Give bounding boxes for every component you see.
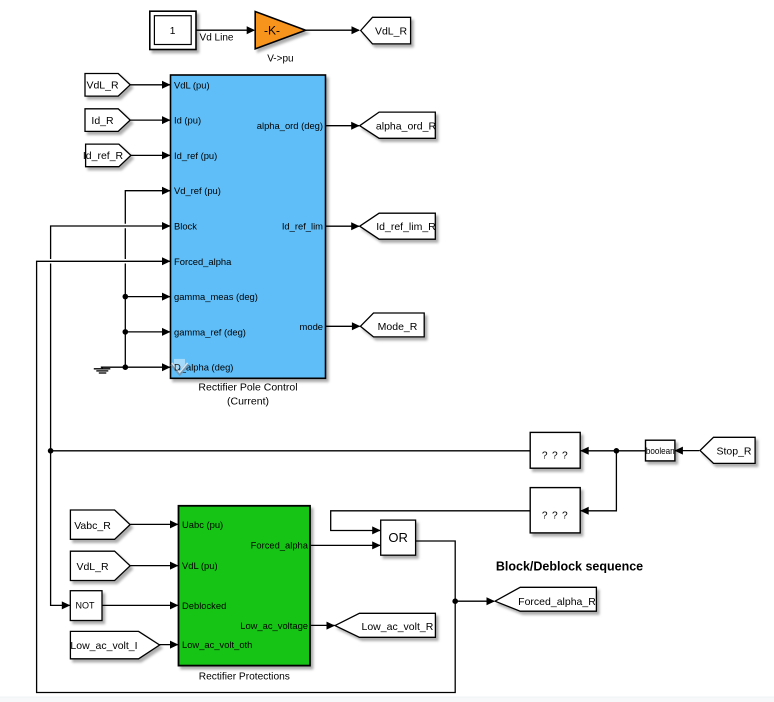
svg-text:V->pu: V->pu bbox=[267, 53, 293, 64]
wire: Stop_R net (Stop_R to boolean to ??? blocks) bbox=[581, 451, 700, 511]
data type conversion boolean bbox=[646, 440, 675, 461]
from tag VdL_R bbox=[85, 74, 130, 97]
svg-text:Id_ref (pu): Id_ref (pu) bbox=[174, 150, 217, 161]
wire: mode output to Mode_R goto bbox=[326, 325, 360, 327]
constant block "1" bbox=[150, 11, 196, 49]
arrow into VdL_R goto bbox=[352, 26, 361, 34]
svg-text:D: D bbox=[174, 362, 181, 373]
svg-text:Id_R: Id_R bbox=[91, 115, 114, 127]
arrow into Id_ref (pu) port bbox=[162, 151, 171, 159]
wire: Low_ac_volt_I from tag to Low_ac_volt_oth port bbox=[159, 644, 178, 646]
svg-text:mode: mode bbox=[300, 321, 323, 332]
wire: VdL_R from tag to VdL (pu) port of protections bbox=[130, 565, 178, 567]
junction: Block net split bbox=[48, 448, 54, 454]
from tag VdL_R lower bbox=[70, 551, 130, 580]
logical operator NOT bbox=[70, 591, 102, 621]
svg-text:NOT: NOT bbox=[76, 601, 96, 611]
arrow into VdL (pu) port protections bbox=[170, 562, 179, 570]
svg-text:Forced_alpha: Forced_alpha bbox=[174, 256, 232, 267]
svg-text:Low_ac_volt_I: Low_ac_volt_I bbox=[70, 640, 137, 652]
svg-text:? ? ?: ? ? ? bbox=[542, 510, 569, 521]
goto tag Low_ac_volt_R bbox=[335, 613, 435, 637]
from tag Id_R bbox=[85, 109, 130, 132]
svg-text:Id_ref_R: Id_ref_R bbox=[83, 150, 124, 162]
arrow into alpha_ord_R goto bbox=[351, 122, 360, 130]
svg-text:? ? ?: ? ? ? bbox=[542, 450, 569, 461]
arrow into VdL (pu) port bbox=[162, 81, 171, 89]
svg-text:Mode_R: Mode_R bbox=[378, 321, 418, 333]
svg-text:Deblocked: Deblocked bbox=[182, 600, 226, 611]
svg-text:Id_ref_lim: Id_ref_lim bbox=[282, 221, 323, 232]
junction: Stop net split bbox=[614, 448, 620, 454]
subsystem Rectifier Pole Control (Current) bbox=[171, 75, 326, 408]
arrow into Low_ac_volt_R goto bbox=[327, 622, 336, 630]
from tag Id_ref_R bbox=[83, 144, 131, 167]
goto tag Id_ref_lim_R bbox=[360, 213, 436, 239]
subsystem Rectifier Protections bbox=[179, 506, 311, 683]
wire: Id_ref_lim output to Id_ref_lim_R goto bbox=[326, 225, 360, 227]
wire: VdL_R from tag to VdL (pu) port bbox=[130, 84, 170, 86]
wire: NOT output to Deblocked port bbox=[102, 604, 178, 606]
from tag Vabc_R bbox=[70, 510, 130, 539]
goto tag alpha_ord_R bbox=[360, 112, 437, 138]
bottom window strip bbox=[0, 697, 774, 698]
svg-text:VdL (pu): VdL (pu) bbox=[174, 79, 210, 90]
svg-text:VdL (pu): VdL (pu) bbox=[182, 560, 218, 571]
arrow into Id (pu) port bbox=[162, 116, 171, 124]
wire: Low_ac_voltage output to Low_ac_volt_R goto bbox=[310, 624, 335, 626]
junction: ground / D_alpha tap bbox=[123, 364, 129, 370]
svg-text:Stop_R: Stop_R bbox=[716, 446, 751, 458]
junction: Forced_alpha_R tap bbox=[452, 598, 458, 604]
goto tag Forced_alpha_R bbox=[495, 587, 596, 611]
arrow into Uabc port bbox=[170, 520, 179, 528]
svg-text:Block: Block bbox=[174, 221, 197, 232]
svg-text:Block/Deblock sequence: Block/Deblock sequence bbox=[496, 559, 643, 573]
svg-text:Id_ref_lim_R: Id_ref_lim_R bbox=[376, 221, 436, 233]
svg-text:(Current): (Current) bbox=[227, 396, 269, 408]
svg-text:gamma_ref (deg): gamma_ref (deg) bbox=[174, 326, 246, 337]
wire: Id_ref_R from tag to Id_ref (pu) port bbox=[131, 154, 170, 156]
svg-text:Uabc (pu): Uabc (pu) bbox=[182, 519, 223, 530]
arrow into OR input 1 bbox=[372, 526, 381, 534]
goto tag VdL_R bbox=[361, 17, 411, 44]
svg-text:-K-: -K- bbox=[264, 23, 280, 37]
from tag Stop_R (mirrored) bbox=[700, 437, 755, 463]
goto tag Mode_R bbox=[360, 313, 424, 337]
wire: constant to gain bbox=[196, 29, 254, 31]
wire: Id_R from tag to Id (pu) port bbox=[130, 119, 170, 121]
svg-text:gamma_meas (deg): gamma_meas (deg) bbox=[174, 291, 258, 302]
svg-text:OR: OR bbox=[388, 530, 408, 545]
arrow into Mode_R goto bbox=[352, 322, 361, 330]
svg-text:VdL_R: VdL_R bbox=[86, 80, 119, 92]
arrow into Forced_alpha_R goto bbox=[487, 597, 496, 605]
arrow into D_alpha port bbox=[162, 363, 171, 371]
svg-text:Rectifier Protections: Rectifier Protections bbox=[199, 672, 290, 683]
wire: Block net (??? output to Block port and NOT input) bbox=[51, 226, 531, 605]
svg-text:Vd Line: Vd Line bbox=[200, 33, 234, 44]
arrow into Block port bbox=[162, 222, 171, 230]
svg-text:Forced_alpha: Forced_alpha bbox=[251, 540, 309, 551]
svg-text:VdL_R: VdL_R bbox=[375, 25, 408, 37]
arrow into Low_ac_volt_oth port bbox=[170, 641, 179, 649]
arrow into Vd_ref (pu) port bbox=[162, 187, 171, 195]
svg-text:alpha_ord (deg): alpha_ord (deg) bbox=[257, 120, 323, 131]
svg-text:Forced_alpha_R: Forced_alpha_R bbox=[518, 596, 596, 608]
svg-text:Id (pu): Id (pu) bbox=[174, 115, 201, 126]
svg-text:Vd_ref (pu): Vd_ref (pu) bbox=[174, 185, 221, 196]
svg-text:Low_ac_voltage: Low_ac_voltage bbox=[240, 620, 308, 631]
svg-text:boolean: boolean bbox=[646, 445, 675, 456]
arrow into gain bbox=[247, 26, 256, 34]
wire: Vabc_R from tag to Uabc port bbox=[130, 523, 178, 525]
arrow into Id_ref_lim_R goto bbox=[351, 222, 360, 230]
wire: ??? lower output to OR input 1 bbox=[331, 511, 531, 531]
arrow into gamma_meas port bbox=[162, 293, 171, 301]
wire: Forced_alpha feedback net (OR output to Forced_alpha port and Forced_alpha_R) bbox=[37, 261, 494, 692]
arrow into OR input 2 bbox=[372, 541, 381, 549]
junction: gamma_ref tap bbox=[123, 329, 129, 335]
svg-text:Rectifier Pole Control: Rectifier Pole Control bbox=[198, 382, 297, 394]
wire: Forced_alpha output to OR input 2 bbox=[310, 544, 380, 546]
junction: gamma_meas tap bbox=[123, 294, 129, 300]
arrow into NOT input bbox=[62, 601, 71, 609]
from tag Low_ac_volt_I bbox=[70, 631, 159, 658]
arrow into Forced_alpha port bbox=[162, 257, 171, 265]
svg-text:alpha_ord_R: alpha_ord_R bbox=[376, 121, 437, 133]
variant badge on D_alpha bbox=[172, 359, 188, 374]
svg-text:Low_ac_volt_R: Low_ac_volt_R bbox=[362, 621, 434, 633]
ground symbol bbox=[94, 367, 111, 373]
wire: gain to VdL_R goto bbox=[306, 29, 359, 31]
lower ??? block bbox=[530, 488, 580, 533]
svg-text:1: 1 bbox=[170, 26, 176, 37]
arrow into boolean block bbox=[674, 447, 683, 455]
arrow into gamma_ref port bbox=[162, 328, 171, 336]
svg-text:Low_ac_volt_oth: Low_ac_volt_oth bbox=[182, 639, 252, 650]
arrow into Deblocked port bbox=[170, 601, 179, 609]
gain V->pu bbox=[255, 12, 305, 65]
svg-text:Vabc_R: Vabc_R bbox=[74, 520, 111, 532]
wire: alpha_ord output to alpha_ord_R goto bbox=[326, 125, 360, 127]
arrow into upper ??? block bbox=[580, 447, 589, 455]
wire: ground net feeding Vd_ref / gamma_meas / gamma_ref / D_alpha bbox=[101, 191, 170, 368]
svg-text:VdL_R: VdL_R bbox=[76, 561, 109, 573]
upper ??? block bbox=[530, 432, 580, 468]
arrow into lower ??? block bbox=[580, 507, 589, 515]
logical operator OR bbox=[381, 520, 416, 555]
